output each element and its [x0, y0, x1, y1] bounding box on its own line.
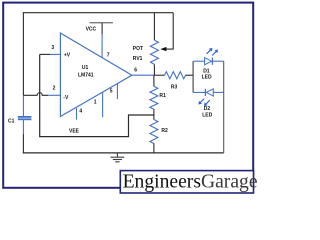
svg-text:-V: -V [63, 95, 69, 101]
svg-text:EngineersGarage: EngineersGarage [123, 171, 257, 192]
wire: C1 to ground rail [22, 120, 24, 153]
resistor R3 [154, 72, 193, 91]
watermark [120, 171, 253, 193]
svg-text:POT: POT [133, 46, 143, 52]
svg-text:4: 4 [79, 109, 82, 115]
svg-text:VEE: VEE [69, 129, 80, 135]
resistor R2 [150, 115, 168, 153]
wire: output pin 6 [132, 68, 154, 76]
svg-text:LED: LED [202, 112, 212, 118]
svg-text:1: 1 [94, 99, 97, 105]
svg-text:+V: +V [64, 53, 71, 59]
wire: pot wiper [160, 13, 173, 52]
resistor R1 [150, 75, 166, 115]
wire: ground/bottom rail [23, 152, 224, 154]
potentiometer RV1 [133, 13, 159, 75]
wire: left rail lower (to C1) [22, 95, 24, 116]
pin 5 stub [110, 84, 118, 100]
wire: top rail [23, 12, 173, 14]
svg-text:RV1: RV1 [133, 56, 143, 62]
svg-text:VCC: VCC [86, 27, 97, 33]
op-amp U1 [60, 33, 131, 117]
wire: left rail [22, 12, 24, 95]
LED D1 [193, 48, 224, 81]
svg-text:R1: R1 [159, 93, 166, 99]
svg-text:LM741: LM741 [78, 72, 94, 78]
svg-text:R2: R2 [161, 128, 168, 134]
svg-text:U1: U1 [82, 65, 89, 71]
pin 3 wire [40, 45, 61, 55]
svg-text:3: 3 [51, 45, 54, 51]
svg-text:2: 2 [53, 85, 56, 91]
svg-text:R3: R3 [171, 85, 178, 91]
pin 1 stub [94, 92, 103, 117]
wire: LED block left leg [192, 61, 194, 92]
VEE label [69, 129, 80, 135]
border frame [3, 3, 253, 188]
wire: feedback loop [40, 54, 154, 136]
pin 2 wire with hop [23, 85, 60, 95]
svg-text:7: 7 [107, 53, 110, 59]
svg-text:5: 5 [110, 89, 113, 95]
svg-text:LED: LED [202, 75, 212, 81]
wire: LED block right leg [223, 61, 225, 153]
LED D2 [193, 89, 224, 119]
pin 7 stub [102, 34, 110, 59]
pin 4 stub [77, 108, 83, 119]
ground [111, 153, 125, 161]
svg-text:D2: D2 [204, 106, 211, 112]
svg-text:6: 6 [134, 68, 137, 74]
svg-text:D1: D1 [203, 68, 210, 74]
svg-text:C1: C1 [8, 118, 15, 124]
capacitor C1 [8, 117, 31, 125]
power VCC symbol [86, 23, 113, 34]
